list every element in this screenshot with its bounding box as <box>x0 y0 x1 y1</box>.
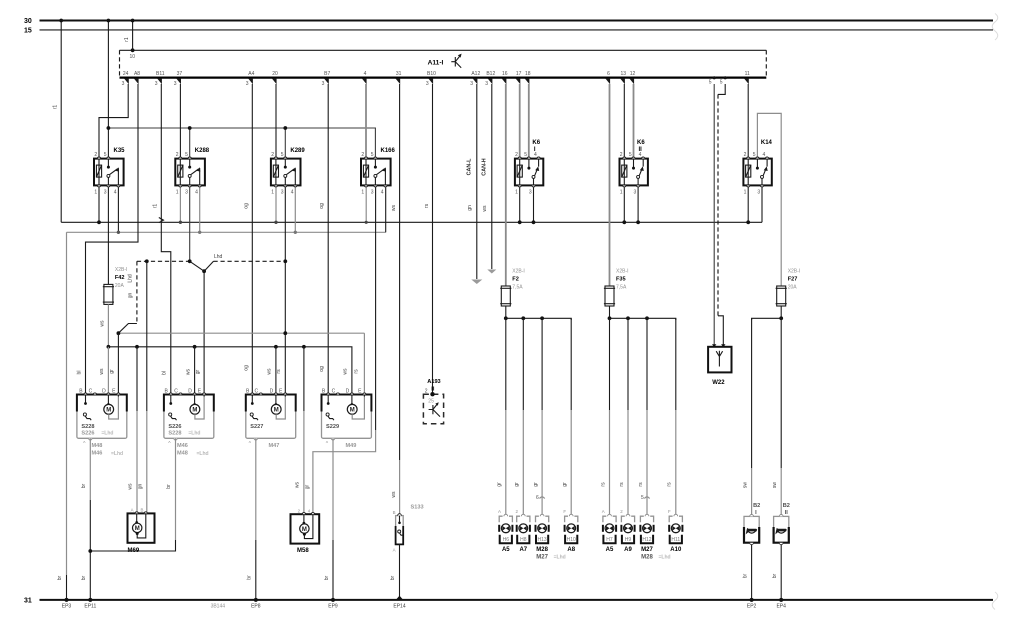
svg-text:F42: F42 <box>115 275 125 281</box>
wire K35 pin 3 to fuse F42 <box>107 187 109 284</box>
svg-text:4: 4 <box>195 189 198 195</box>
A11-I pin 17 <box>516 71 522 84</box>
wire A11-I 4 to K166 pin 2 <box>365 84 367 157</box>
svg-text:D: D <box>346 388 350 394</box>
bus 15 supply rail <box>24 28 993 35</box>
A11-I pin 6 <box>605 71 610 84</box>
svg-text:S228: S228 <box>81 424 94 430</box>
svg-text:M28: M28 <box>536 547 548 553</box>
junction F2 bus lamp A5 <box>504 316 508 320</box>
svg-text:A: A <box>393 548 396 553</box>
svg-text:15: 15 <box>24 28 32 35</box>
sensor A193 II (dashed) <box>423 379 443 424</box>
svg-text:3: 3 <box>634 189 637 195</box>
A11-I pin 5 (first) <box>709 76 716 85</box>
relay K289 <box>271 148 306 195</box>
svg-text:M46: M46 <box>177 443 188 449</box>
svg-text:5: 5 <box>281 152 284 158</box>
bus L1 (gn/rs) to S229 pin E <box>118 333 364 395</box>
svg-text:ws: ws <box>128 483 134 490</box>
relay K166 <box>361 148 396 195</box>
junction L2 / M58 wire <box>302 345 306 349</box>
svg-text:W22: W22 <box>712 380 725 386</box>
svg-text:2: 2 <box>744 152 747 158</box>
wire S228 pin D drop <box>107 347 109 395</box>
junction F35 bus lamp M27 <box>645 316 649 320</box>
svg-text:2: 2 <box>361 152 364 158</box>
svg-text:br: br <box>81 575 87 580</box>
svg-text:M: M <box>302 527 307 533</box>
svg-text:gr: gr <box>305 484 311 489</box>
wire sw horn B2 I feed <box>742 318 751 516</box>
wire gr lamp feed x542 <box>533 318 542 514</box>
svg-text:bl: bl <box>76 371 82 375</box>
wire rs lamp feed x609 <box>600 318 609 514</box>
svg-text:og: og <box>244 203 250 209</box>
svg-text:Lhd: Lhd <box>128 274 134 283</box>
svg-text:A193: A193 <box>427 379 440 385</box>
horn B2 I <box>744 503 760 545</box>
svg-text:M: M <box>192 408 197 414</box>
A11-I pin 13 <box>620 71 626 84</box>
junction L2 / S227 pin D <box>274 345 278 349</box>
svg-text:EP14: EP14 <box>393 603 405 609</box>
wire gn M69 pin B feed <box>138 261 147 513</box>
svg-text:5: 5 <box>524 152 527 158</box>
svg-text:M58: M58 <box>297 548 309 554</box>
svg-text:4: 4 <box>534 152 537 158</box>
node Lhd V-split to S226 pin E <box>202 269 206 273</box>
wire ws M58 left feed <box>295 347 311 514</box>
svg-text:D: D <box>188 388 192 394</box>
svg-text:K166: K166 <box>381 148 396 154</box>
lamp unit A8 (H10) <box>563 509 577 553</box>
svg-text:H9: H9 <box>625 537 632 543</box>
wire bus to K288 pin 5 <box>188 126 192 156</box>
svg-text:3: 3 <box>426 81 429 87</box>
junction F2 bus lamp M28 <box>540 316 544 320</box>
wire K6-I pin 1 to line A <box>518 187 522 224</box>
relay K288 <box>175 148 210 195</box>
svg-text:F2: F2 <box>512 277 519 283</box>
svg-text:2: 2 <box>515 152 518 158</box>
wire horn B2 I to ground EP2 <box>742 545 753 602</box>
wiper switch S228 / motor M48 unit <box>77 388 127 457</box>
svg-text:B7: B7 <box>324 71 330 77</box>
wire from bus 30 to K35 pin 5 <box>107 19 111 157</box>
wire K35 pin 4 to line B <box>117 187 120 234</box>
svg-text:4: 4 <box>114 189 117 195</box>
svg-text:rs: rs <box>276 369 282 374</box>
svg-text:bl: bl <box>162 371 168 375</box>
svg-text:B11: B11 <box>156 71 165 77</box>
A11-I pin 12 <box>629 71 635 84</box>
wire A11-I 18 to K6-I pin 5 <box>528 84 530 157</box>
wire K14 pin 1 to line A <box>746 187 750 224</box>
svg-text:gr: gr <box>514 482 520 487</box>
wire ws A11-I 31 to switch S133 <box>391 84 400 516</box>
svg-text:K35: K35 <box>114 148 126 154</box>
svg-text:M46: M46 <box>92 450 103 456</box>
svg-text:r1: r1 <box>152 204 158 209</box>
svg-text:rs: rs <box>353 369 359 374</box>
svg-text:24: 24 <box>123 71 129 77</box>
wire S229 bottom to ground EP9 <box>324 438 335 602</box>
svg-text:7,5A: 7,5A <box>616 285 627 291</box>
svg-text:EP8: EP8 <box>251 603 261 609</box>
svg-text:B2: B2 <box>783 503 790 509</box>
svg-text:M: M <box>106 408 111 414</box>
svg-text:H6: H6 <box>503 537 510 543</box>
svg-text:H8: H8 <box>520 537 527 543</box>
wire K166 pin 4 to line B <box>385 187 387 232</box>
svg-text:ws: ws <box>343 368 349 375</box>
svg-text:K6: K6 <box>637 140 645 146</box>
svg-text:=Lhd: =Lhd <box>659 554 671 560</box>
A11-I pin 37 <box>174 71 183 87</box>
svg-text:3: 3 <box>104 189 107 195</box>
svg-text:1: 1 <box>744 189 747 195</box>
wire S228 pin E drop <box>117 333 119 394</box>
svg-text:M: M <box>350 408 355 414</box>
svg-text:4: 4 <box>763 152 766 158</box>
wire bus to K289 pin 5 <box>283 126 287 156</box>
A11-I pin A12 <box>470 71 480 87</box>
svg-text:A: A <box>602 509 605 514</box>
svg-text:CAN-H: CAN-H <box>482 158 488 175</box>
A11-I pin 5 (second) <box>720 76 727 85</box>
svg-text:Lhd: Lhd <box>214 254 223 260</box>
A11-I pin 16 <box>502 71 508 84</box>
svg-text:=Lhd: =Lhd <box>554 554 566 560</box>
wire A11-I 6 to fuse F35 <box>609 84 611 286</box>
A11-I pin 10 <box>130 48 136 60</box>
wire K166 pin 3 to motor M58 <box>313 187 376 514</box>
svg-text:gn: gn <box>467 205 473 211</box>
svg-text:S226: S226 <box>168 424 181 430</box>
svg-text:=Lhd: =Lhd <box>111 451 123 457</box>
wire A11-I 11 to K14 pin 2 <box>747 84 749 157</box>
A11-I pin B10 <box>426 71 436 87</box>
relay pin5 bus from bus30 wire to K166 pin 5 <box>108 128 375 157</box>
svg-text:ws: ws <box>267 368 273 375</box>
junction L2 / S226 pin D <box>193 345 197 349</box>
svg-text:gr: gr <box>109 369 115 374</box>
headlamp A7 (H8) <box>516 509 530 553</box>
svg-text:4: 4 <box>381 189 384 195</box>
svg-text:r1: r1 <box>53 105 59 110</box>
svg-text:og: og <box>319 366 325 372</box>
svg-text:B2: B2 <box>753 503 760 509</box>
svg-text:gn: gn <box>128 293 134 299</box>
svg-text:3: 3 <box>122 81 125 87</box>
A11-I pin 11 <box>744 71 750 84</box>
wire rs lamp feed x628 <box>619 318 628 514</box>
svg-text:4: 4 <box>291 189 294 195</box>
wire gn Lhd dashed drop to node L1 <box>118 261 136 333</box>
svg-text:A5: A5 <box>502 547 510 553</box>
svg-text:A5: A5 <box>606 547 614 553</box>
svg-text:br: br <box>742 573 748 578</box>
svg-text:2: 2 <box>94 152 97 158</box>
svg-text:M27: M27 <box>641 547 653 553</box>
svg-text:M27: M27 <box>536 554 548 560</box>
wire line B to ground EP3 <box>57 232 68 602</box>
wire K6-II pin 1 to line A <box>622 187 626 224</box>
wire K288 pin 1 to line A <box>179 187 182 224</box>
svg-text:A4: A4 <box>248 71 254 77</box>
lamp unit A9 (H9) <box>620 509 634 553</box>
A11-I pin 18 <box>525 71 531 84</box>
junction F2 bus lamp A7 <box>521 316 525 320</box>
svg-text:A9: A9 <box>624 547 632 553</box>
svg-text:5: 5 <box>371 152 374 158</box>
wire r1 A11-I B11 to S226 pin B <box>152 84 171 395</box>
wire rs lamp feed x647 <box>638 318 647 514</box>
wire K6-II pin 3 to line A <box>636 187 640 224</box>
svg-text:M47: M47 <box>269 443 280 449</box>
svg-text:EP11: EP11 <box>84 603 96 609</box>
relay K6 II <box>620 140 648 196</box>
wire A11-I 5 to W22 antenna (screened, dashed) <box>718 84 725 347</box>
wire K288 pin 4 to line B <box>198 187 201 234</box>
svg-text:3: 3 <box>155 81 158 87</box>
svg-text:17: 17 <box>516 71 522 77</box>
lamp unit M28 (H13) <box>536 514 566 560</box>
junction K35 pin 5 bus <box>107 126 111 130</box>
wire A11-I 37 to K288 pin 2 <box>179 84 181 157</box>
svg-text:20A: 20A <box>115 283 125 289</box>
svg-text:S228: S228 <box>168 431 181 437</box>
svg-text:br: br <box>247 575 253 580</box>
wire gr lamp feed x571 <box>562 318 571 514</box>
svg-text:D: D <box>270 388 274 394</box>
svg-text:EP4: EP4 <box>776 603 786 609</box>
svg-text:3: 3 <box>174 81 177 87</box>
contact supply bus line A <box>61 221 762 223</box>
wire S228 bottom to ground EP11 <box>81 438 93 602</box>
svg-text:og: og <box>319 203 325 209</box>
svg-text:4: 4 <box>639 152 642 158</box>
wire gr lamp feed x505 <box>497 318 506 514</box>
svg-text:5: 5 <box>104 152 107 158</box>
svg-text:A11-I: A11-I <box>428 59 444 66</box>
lamp unit A10 (H11) <box>668 509 682 553</box>
svg-text:5: 5 <box>185 152 188 158</box>
wire r1 from bus 30 to A11-I pin 10 <box>124 19 134 51</box>
svg-text:X2B-I: X2B-I <box>616 269 629 275</box>
svg-text:=Lhd: =Lhd <box>197 451 209 457</box>
svg-text:5: 5 <box>641 495 644 501</box>
fluid level switch S133 <box>393 505 424 553</box>
svg-text:gr: gr <box>195 369 201 374</box>
bus L2 (ws) to S229 pin D <box>108 347 352 396</box>
lamp unit M27 (H12) <box>640 514 670 560</box>
junction F35 bus lamp A9 <box>626 316 630 320</box>
svg-text:B: B <box>393 510 396 515</box>
svg-text:C: C <box>89 388 93 394</box>
svg-text:ws: ws <box>185 368 191 375</box>
svg-text:S133: S133 <box>411 505 424 511</box>
svg-text:3: 3 <box>322 81 325 87</box>
svg-text:3: 3 <box>185 189 188 195</box>
wire S227 pin D drop <box>275 347 277 396</box>
svg-text:F27: F27 <box>788 277 798 283</box>
svg-text:31: 31 <box>24 598 32 605</box>
lamp bus from fuse F35 <box>610 306 676 320</box>
svg-text:4: 4 <box>364 71 367 77</box>
svg-text:ws: ws <box>99 368 105 375</box>
svg-text:r1: r1 <box>124 37 130 42</box>
svg-text:3: 3 <box>757 189 760 195</box>
wire A11-I A8 to S228 pin B <box>86 84 139 395</box>
svg-text:2: 2 <box>271 152 274 158</box>
wiper switch S227 / motor M47 unit <box>246 388 296 449</box>
svg-text:H13: H13 <box>538 537 547 543</box>
Lhd option bus (dashed) <box>137 254 285 271</box>
svg-text:ws: ws <box>391 491 397 498</box>
svg-text:C: C <box>332 388 336 394</box>
wire r1 from bus 30 to contact bus <box>53 19 64 223</box>
svg-text:br: br <box>166 484 172 489</box>
svg-text:12: 12 <box>630 71 636 77</box>
relay K14 <box>743 140 772 196</box>
A11-I pin 20 <box>272 71 278 84</box>
svg-text:M28: M28 <box>641 554 653 560</box>
wire K289 pin 4 to line B <box>294 187 297 234</box>
svg-text:1: 1 <box>620 189 623 195</box>
svg-text:br: br <box>390 575 396 580</box>
svg-text:10: 10 <box>130 54 136 60</box>
svg-text:rs: rs <box>600 482 606 487</box>
A11-I pin 31 <box>395 71 401 84</box>
svg-text:1: 1 <box>361 189 364 195</box>
wire CAN-L from A11-I A12 <box>467 84 483 284</box>
svg-text:H11: H11 <box>671 537 680 543</box>
wire S227 bottom to ground EP8 <box>247 438 258 602</box>
svg-text:EP2: EP2 <box>747 603 757 609</box>
svg-text:B: B <box>141 508 144 513</box>
svg-text:16: 16 <box>502 71 508 77</box>
svg-text:br: br <box>772 573 778 578</box>
wiper switch S229 / motor M49 unit <box>322 388 372 449</box>
wire K166 pin 1 to line A <box>365 187 368 224</box>
svg-text:M48: M48 <box>92 443 103 449</box>
svg-text:F: F <box>668 509 671 514</box>
svg-text:II: II <box>431 387 435 393</box>
svg-text:sw: sw <box>772 482 778 489</box>
antenna amplifier W22 <box>708 344 731 386</box>
A11-I pin 24 <box>122 71 129 87</box>
wire K288 pin 3 to Lhd node <box>189 187 191 261</box>
wire A11-I 24 to K35 pin 2 <box>99 84 128 157</box>
svg-text:1: 1 <box>271 189 274 195</box>
relay K6 I <box>515 140 543 196</box>
svg-text:37: 37 <box>177 71 183 77</box>
svg-text:gr: gr <box>533 482 539 487</box>
svg-text:2: 2 <box>620 152 623 158</box>
svg-text:7,5A: 7,5A <box>512 285 523 291</box>
washer pump motor M69 <box>128 508 155 554</box>
svg-text:A: A <box>131 508 134 513</box>
A11-I pin B7 <box>322 71 331 87</box>
svg-text:B10: B10 <box>427 71 436 77</box>
A11-I pin 4 <box>362 71 367 84</box>
svg-text:EP3: EP3 <box>62 603 72 609</box>
A11-I pin A8 <box>134 71 140 84</box>
svg-text:K14: K14 <box>761 140 773 146</box>
svg-text:3: 3 <box>529 189 532 195</box>
wire gr lamp feed x523 <box>514 318 523 514</box>
svg-text:br: br <box>324 575 330 580</box>
svg-text:II: II <box>785 510 789 516</box>
svg-text:20: 20 <box>272 71 278 77</box>
svg-text:A: A <box>498 509 501 514</box>
svg-text:S227: S227 <box>250 424 263 430</box>
fuse F27 <box>776 269 801 307</box>
svg-text:5: 5 <box>720 80 723 86</box>
wire K35 pin 1 to line A <box>97 187 101 224</box>
headlamp A5 II (H7) <box>602 509 616 553</box>
svg-text:3: 3 <box>281 189 284 195</box>
svg-text:A8: A8 <box>567 547 575 553</box>
svg-text:ws: ws <box>100 320 106 327</box>
svg-text:1: 1 <box>515 189 518 195</box>
svg-text:S226: S226 <box>81 431 94 437</box>
svg-text:5: 5 <box>753 152 756 158</box>
svg-text:25: 25 <box>428 399 434 405</box>
junction L2 / M69 pin A wire <box>135 345 139 349</box>
svg-text:6: 6 <box>536 495 539 501</box>
svg-text:2: 2 <box>425 388 428 394</box>
wire og A11-I A4 to S227 pin B <box>243 84 252 396</box>
svg-text:A8: A8 <box>134 71 140 77</box>
wire S133 pin A to ground EP14 <box>390 544 403 600</box>
svg-text:18: 18 <box>525 71 531 77</box>
lamp bus from fuse F2 <box>506 306 571 320</box>
coiled lead mark lamp M28 <box>536 495 545 501</box>
svg-text:K288: K288 <box>195 148 210 154</box>
svg-text:ws: ws <box>295 481 301 488</box>
svg-text:H10: H10 <box>567 537 576 543</box>
wire ws fuse F42 to node L2 <box>100 304 109 346</box>
svg-text:rs: rs <box>424 203 430 208</box>
svg-text:13: 13 <box>621 71 627 77</box>
horn B2 II <box>774 503 790 545</box>
svg-text:3: 3 <box>485 81 488 87</box>
fuse F42 <box>103 267 128 305</box>
wire sw horn B2 II feed <box>772 318 781 516</box>
junction Lhd bus / K288 pin 3 <box>188 259 192 263</box>
svg-text:rs: rs <box>638 482 644 487</box>
svg-text:1: 1 <box>176 189 179 195</box>
svg-text:M: M <box>274 408 279 414</box>
svg-text:H12: H12 <box>642 537 651 543</box>
coiled lead mark lamp M27 II <box>641 495 650 501</box>
svg-text:rs: rs <box>667 482 673 487</box>
junction L1 / K289 pin 3 wire <box>283 331 287 335</box>
wire A11-I 5 to W22 antenna (solid) <box>713 84 715 347</box>
wire CAN-H from A11-I B12 <box>482 84 497 274</box>
svg-text:H7: H7 <box>606 537 613 543</box>
svg-text:sw: sw <box>742 482 748 489</box>
svg-text:31: 31 <box>396 71 402 77</box>
svg-text:3: 3 <box>371 189 374 195</box>
svg-text:og: og <box>243 365 249 371</box>
junction L2 / fuse F42 wire <box>107 345 111 349</box>
svg-text:gr: gr <box>497 482 503 487</box>
svg-text:br: br <box>57 575 63 580</box>
